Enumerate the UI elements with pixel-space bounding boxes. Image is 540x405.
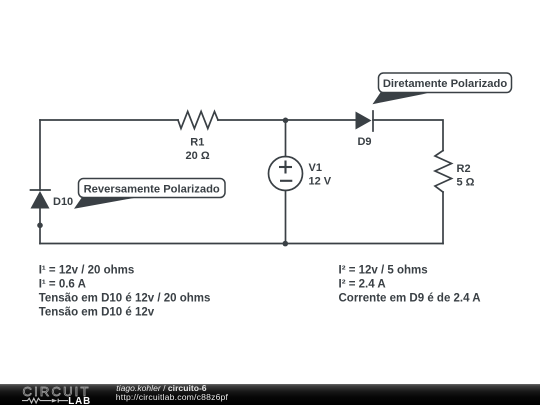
- svg-text:5 Ω: 5 Ω: [457, 177, 475, 189]
- svg-text:Tensão em D10 é 12v / 20 ohms: Tensão em D10 é 12v / 20 ohms: [39, 292, 211, 304]
- wire left vertical bottom segment: [39, 209, 41, 244]
- callout tail (Reversamente Polarizado): [74, 197, 136, 209]
- svg-text:Diretamente Polarizado: Diretamente Polarizado: [383, 78, 508, 90]
- wire V1 top lead: [285, 120, 287, 157]
- svg-text:I¹ = 12v / 20 ohms: I¹ = 12v / 20 ohms: [39, 264, 135, 276]
- svg-text:I² = 2.4 A: I² = 2.4 A: [339, 278, 386, 290]
- footer logo squiggle wire to LAB: [59, 400, 69, 402]
- diode D9 triangle: [356, 112, 372, 130]
- svg-text:Tensão em D10 é 12v: Tensão em D10 é 12v: [39, 306, 155, 318]
- footer logo squiggle resistor: [22, 398, 52, 403]
- node dot top (V1/top wire junction): [283, 118, 289, 124]
- V1 plus sign: [279, 161, 292, 181]
- resistor R1: [178, 112, 218, 129]
- resistor R2: [435, 151, 452, 193]
- svg-text:LAB: LAB: [68, 396, 91, 405]
- callout tail (Diretamente Polarizado): [373, 92, 428, 104]
- svg-text:R1: R1: [190, 136, 204, 148]
- svg-text:Corrente em D9 é de 2.4 A: Corrente em D9 é de 2.4 A: [339, 292, 481, 304]
- node dot bottom (V1/bottom wire junction): [283, 241, 289, 247]
- footer bar: [0, 384, 540, 405]
- svg-text:20 Ω: 20 Ω: [186, 150, 210, 162]
- svg-text:I² = 12v / 5 ohms: I² = 12v / 5 ohms: [339, 264, 428, 276]
- wire V1 bottom lead: [285, 191, 287, 244]
- svg-text:12 V: 12 V: [309, 176, 332, 188]
- svg-text:http://circuitlab.com/c88z6pf: http://circuitlab.com/c88z6pf: [116, 392, 229, 402]
- diode D10 cathode bar: [31, 189, 51, 191]
- wire R2 bottom to bottom-right corner: [442, 192, 444, 244]
- footer logo squiggle diode: [52, 399, 57, 403]
- svg-text:R2: R2: [457, 163, 471, 175]
- footer logo squiggle diode bar: [57, 399, 59, 403]
- svg-text:D10: D10: [53, 196, 73, 208]
- callout box Reversamente Polarizado: [79, 179, 226, 198]
- voltage source V1 circle: [269, 157, 303, 191]
- svg-text:Reversamente Polarizado: Reversamente Polarizado: [84, 183, 220, 195]
- callout box Diretamente Polarizado: [379, 73, 512, 93]
- node dot left (D10 anode node): [37, 223, 43, 229]
- V1 minus sign: [280, 180, 292, 182]
- diode D10 triangle: [31, 191, 50, 209]
- diode D9 cathode bar: [372, 111, 374, 131]
- wire R1 to D9 anode: [218, 119, 356, 121]
- svg-text:I¹ = 0.6 A: I¹ = 0.6 A: [39, 278, 86, 290]
- svg-text:V1: V1: [309, 162, 322, 174]
- wire D9 cathode to top-right corner and down to R2: [373, 120, 443, 151]
- wire left vertical top segment: [39, 120, 41, 190]
- wire bottom horizontal: [40, 243, 443, 245]
- wire top-left horizontal from left corner to R1: [40, 119, 178, 121]
- svg-text:D9: D9: [357, 136, 371, 148]
